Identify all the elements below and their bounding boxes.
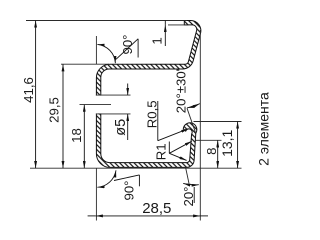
extension line: hole top edge [96, 94, 131, 96]
dimension 29,5 [62, 64, 64, 168]
extension line: strip end top surface [26, 20, 187, 22]
svg-text:8: 8 [204, 148, 219, 155]
svg-text:28,5: 28,5 [142, 200, 171, 217]
extension line: hole bottom edge [96, 113, 131, 115]
hole void in left wall (section gap) [95, 96, 102, 114]
svg-text:90°: 90° [121, 181, 136, 201]
dimension 18 [83, 105, 85, 169]
extension line: left wall extended down [95, 168, 97, 221]
dimension 1 material thickness [164, 21, 166, 47]
dimension 8 lip height [217, 140, 219, 168]
extension line: strip end bottom surface [168, 24, 189, 26]
angle 20 bottom (lip slope) [183, 183, 199, 203]
svg-text:18: 18 [69, 128, 84, 143]
extension line: bottom surface [30, 167, 242, 169]
svg-text:ø5: ø5 [113, 119, 129, 136]
svg-text:29,5: 29,5 [46, 97, 61, 123]
extension line: lip slope extended up [187, 108, 195, 132]
dimension 41,6 [35, 21, 37, 169]
svg-text:20°±30': 20°±30' [174, 69, 189, 113]
leader: lower 20 angle [186, 168, 189, 184]
svg-text:13,1: 13,1 [219, 129, 235, 156]
dimension 13,1 hook height [237, 122, 239, 169]
angle 20 plus-minus 30min (lip slope vs vertical) [187, 104, 200, 108]
extension line: right tangent vertical [199, 30, 201, 221]
svg-text:R0,5: R0,5 [145, 100, 160, 128]
svg-text:1: 1 [149, 37, 164, 44]
dimension diameter 5 hole [127, 84, 129, 141]
svg-text:2 элемента: 2 элемента [255, 92, 271, 166]
extension line: hook top [194, 121, 242, 123]
leader R0,5 (hook end radius) [158, 101, 189, 141]
extension line: top wall outer surface [61, 63, 109, 65]
channel profile cross-section (hatched strip) [96, 20, 200, 167]
svg-text:R1: R1 [153, 143, 168, 160]
angle 90 bottom-left corner [97, 170, 139, 187]
svg-text:90°: 90° [120, 35, 135, 55]
dimension 28,5 overall width [88, 215, 208, 217]
centre line of hole [80, 104, 112, 106]
extension line: lip straight end [196, 139, 222, 141]
leader R1 (bend radii, two arrows) [169, 141, 192, 160]
angle 90 top-left corner [97, 39, 138, 63]
svg-text:41,6: 41,6 [21, 77, 36, 103]
extension line: left wall extended up [95, 36, 97, 64]
svg-text:20°: 20° [181, 187, 196, 207]
